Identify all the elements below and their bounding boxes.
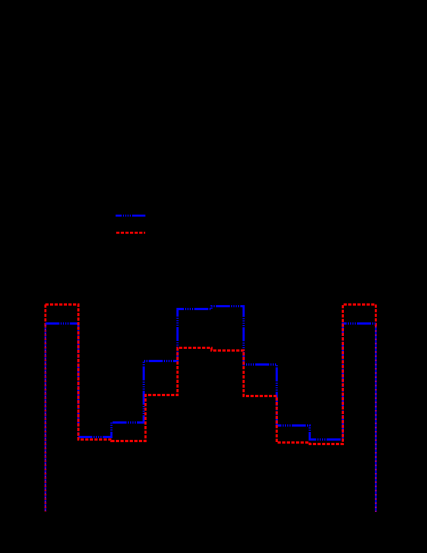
right end vertical: red blobs — [375, 326, 377, 512]
right end vertical: red top segment — [375, 305, 377, 327]
left end vertical: blue under-layer — [44, 324, 46, 512]
right end vertical: magenta dashes — [375, 324, 377, 512]
red dashed step histogram — [45, 305, 375, 445]
legend sample line blue dash-dot — [116, 215, 146, 217]
right end vertical: blue under-layer — [375, 324, 377, 512]
legend sample line red dashed — [116, 232, 145, 234]
blue dash-dot step histogram — [45, 306, 375, 439]
left end vertical: red top segment — [44, 305, 46, 327]
left end vertical: red blobs — [44, 326, 46, 512]
left end vertical: magenta dashes — [44, 323, 46, 513]
